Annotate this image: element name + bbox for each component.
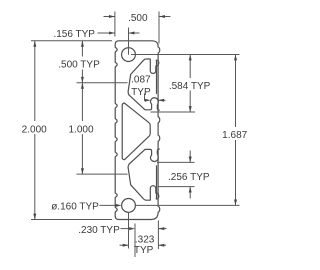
ext hole2 tangent vert	[134, 224, 136, 258]
dim .500TYP lower	[81, 70, 83, 83]
triangle cutout	[122, 103, 150, 160]
arrow 2.000 bot	[33, 214, 36, 220]
svg-text:ø.160 TYP: ø.160 TYP	[51, 202, 99, 213]
arrow .500 right	[159, 15, 165, 18]
arrow 1.687 top	[234, 55, 237, 61]
arrow 1.000 top	[81, 83, 84, 89]
ext .500 left	[114, 12, 116, 37]
ext right edge vert	[157, 221, 159, 250]
arrow .584 top	[189, 55, 192, 61]
top cavity with screw port P1	[128, 59, 159, 95]
hole H1	[122, 48, 136, 62]
ext .500 right	[158, 12, 160, 44]
arrow .256 top	[189, 157, 192, 163]
dim 2.000 upper	[34, 41, 36, 121]
dim .087 right tail	[158, 99, 165, 101]
ext .256 top	[157, 161, 195, 163]
ext bottom-left edge	[31, 219, 112, 221]
dim .500TYP line	[81, 41, 83, 57]
arrow 1.000 bot	[81, 168, 84, 174]
arrow .584 bot	[189, 106, 192, 112]
ext hole1 center horiz	[131, 54, 240, 56]
ext .584 bottom	[151, 111, 196, 113]
bottom cavity with screw port P4	[128, 164, 159, 200]
dim .323 right tail	[158, 244, 166, 246]
ext hole2 center horiz	[135, 204, 240, 206]
dim .156 left tail	[98, 32, 115, 34]
dim .230 right tail	[158, 228, 166, 230]
dim .584 upper	[189, 55, 191, 79]
dim 2.000 lower	[34, 134, 36, 220]
svg-text:TYP: TYP	[131, 87, 151, 98]
arrow 2.000 top	[33, 41, 36, 47]
dim .156 right tail	[129, 32, 140, 34]
dim .256 upper	[189, 151, 191, 163]
svg-text:.500: .500	[128, 13, 148, 24]
hole H2	[122, 199, 136, 213]
svg-text:.230 TYP: .230 TYP	[78, 225, 120, 236]
dim .500 right tail	[159, 16, 171, 18]
svg-text:.256 TYP: .256 TYP	[168, 172, 210, 183]
arrow .323 left	[123, 244, 129, 247]
leader .087 elbow	[145, 94, 148, 101]
svg-text:.156 TYP: .156 TYP	[53, 29, 95, 40]
arrow .256 bot	[189, 187, 192, 193]
dim .230 left tail	[121, 228, 132, 230]
leader o.160	[100, 204, 119, 206]
arrow .156 left	[109, 32, 115, 35]
arrow .500 left	[109, 15, 115, 18]
arrow .500TYP top	[81, 41, 84, 47]
dim .500 left tail	[104, 16, 115, 18]
screw port P2	[129, 95, 159, 110]
svg-text:.584 TYP: .584 TYP	[169, 81, 211, 92]
arrow .087 left	[145, 99, 151, 102]
ext hole2 center vert	[128, 212, 130, 248]
ext y82.8 left	[77, 82, 128, 84]
svg-text:.087: .087	[131, 75, 151, 86]
arrow 1.687 bot	[234, 200, 237, 206]
svg-text:TYP: TYP	[134, 245, 154, 256]
svg-text:.323: .323	[135, 235, 155, 246]
dim 1.000 lower	[81, 134, 83, 174]
dim .323 left tail	[120, 244, 129, 246]
profile outline	[115, 41, 160, 220]
arrow .156 right	[129, 32, 135, 35]
dim 1.687 lower	[235, 140, 237, 205]
arrow .230 right	[158, 227, 164, 230]
dim .256 lower	[189, 187, 191, 199]
arrow .230 left	[129, 227, 135, 230]
dim .584 lower	[189, 91, 191, 113]
ext .256 bottom	[159, 186, 195, 188]
svg-text:2.000: 2.000	[22, 124, 47, 135]
arrow o.160	[116, 204, 122, 207]
ext top-left edge	[31, 40, 112, 42]
arrow .323 right	[158, 244, 164, 247]
ext hole1 center vert	[128, 28, 130, 55]
arrow .087 right	[158, 99, 164, 102]
svg-text:1.000: 1.000	[68, 124, 93, 135]
arrow .500TYP bot	[81, 77, 84, 83]
dim 1.000 upper	[81, 83, 83, 121]
dim 1.687 upper	[235, 55, 237, 128]
ext y174.1 left	[77, 173, 128, 175]
svg-text:1.687: 1.687	[222, 130, 247, 141]
screw port P3	[129, 149, 159, 164]
svg-text:.500 TYP: .500 TYP	[58, 60, 100, 71]
